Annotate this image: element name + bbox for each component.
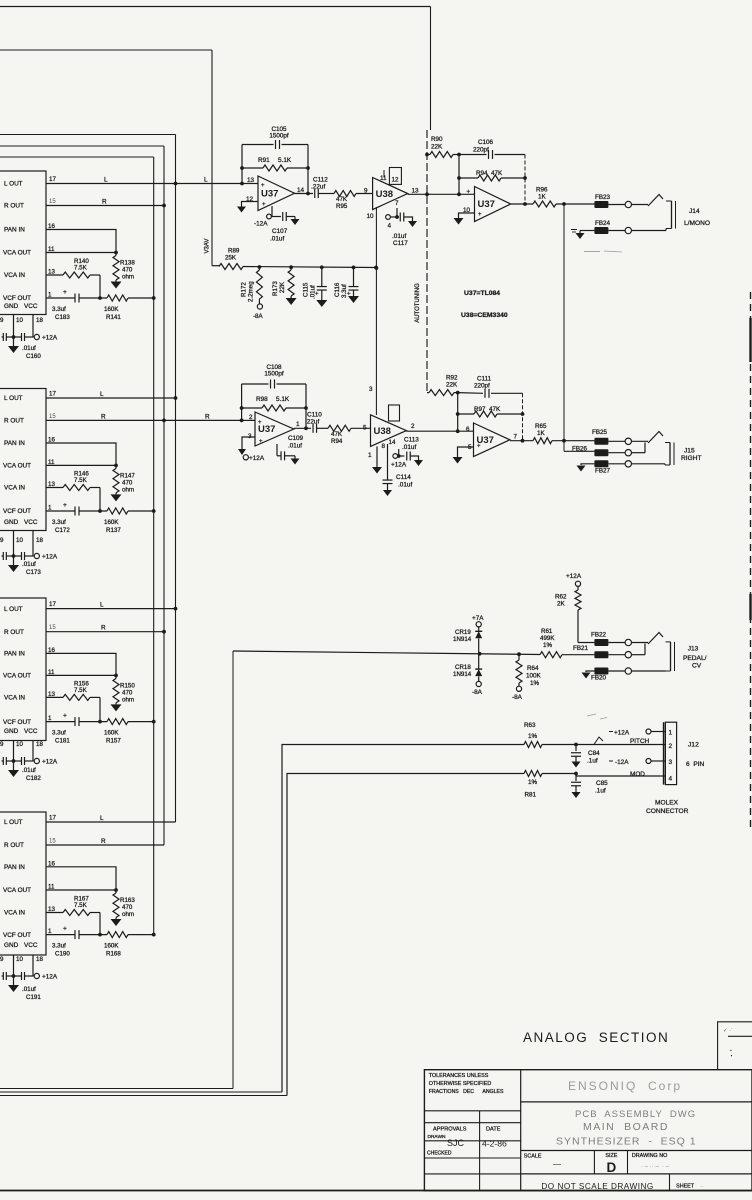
svg-text:+12A: +12A <box>249 455 265 462</box>
ferrite bead FB22 <box>578 632 608 647</box>
diode CR19 1N914 <box>453 627 482 654</box>
capacitor C115 .01uf <box>303 267 328 307</box>
svg-text:18: 18 <box>36 741 43 748</box>
svg-text:VCA OUT: VCA OUT <box>3 887 31 894</box>
svg-text:R141: R141 <box>106 314 121 321</box>
svg-text:C85: C85 <box>596 780 608 787</box>
svg-text:+12A: +12A <box>566 573 582 580</box>
op-amp U38 section (CEM3340 L) <box>364 175 419 220</box>
svg-text:R92: R92 <box>446 375 458 382</box>
svg-text:17: 17 <box>49 176 56 183</box>
svg-text:R OUT: R OUT <box>4 203 24 210</box>
power -8A at CR18 <box>472 681 483 696</box>
J15 tip switch lever <box>648 432 663 444</box>
svg-text:R138: R138 <box>120 260 135 267</box>
svg-text:160K: 160K <box>104 943 119 950</box>
svg-text:+12A: +12A <box>391 462 407 469</box>
ferrite bead FB20 <box>591 668 608 682</box>
label SIZE D <box>605 1153 617 1175</box>
jack contact circle J15 ring <box>608 443 645 456</box>
capacitor C110 .22uf <box>305 412 322 433</box>
svg-text:PITCH: PITCH <box>630 738 650 745</box>
svg-text:17: 17 <box>49 601 56 608</box>
resistor R90 22K <box>425 136 459 158</box>
block 3 pin name labels <box>3 606 38 735</box>
wire FB26 to lever <box>564 450 594 452</box>
power +12A at U37B <box>243 455 265 462</box>
svg-text:J13: J13 <box>688 646 699 653</box>
svg-text:ohm: ohm <box>122 911 134 918</box>
svg-text:FB21: FB21 <box>573 645 589 652</box>
svg-text:ohm: ohm <box>122 486 134 493</box>
svg-text:22K: 22K <box>446 382 458 389</box>
svg-text:3: 3 <box>369 386 373 393</box>
label ANALOG SECTION <box>523 1030 669 1045</box>
ferrite bead FB24 <box>594 220 610 234</box>
svg-text:R96: R96 <box>536 187 548 194</box>
resistor R156 7.5K <box>46 680 102 723</box>
svg-text:470: 470 <box>122 479 133 486</box>
net name along sync line <box>415 283 421 323</box>
svg-text:1%: 1% <box>530 680 540 687</box>
wire pedal sum <box>0 651 455 1089</box>
svg-text:-8A: -8A <box>253 313 264 320</box>
capacitor C191 .01uf bypass <box>2 972 42 1001</box>
svg-text:1%: 1% <box>528 733 538 740</box>
svg-text:2K: 2K <box>557 601 566 608</box>
ferrite bead FB25 <box>592 429 608 445</box>
svg-text:.01uf: .01uf <box>392 233 406 240</box>
svg-text:J15: J15 <box>684 448 695 455</box>
label CHECKED <box>427 1151 452 1157</box>
svg-text:7: 7 <box>395 200 399 207</box>
svg-text:VCA IN: VCA IN <box>4 485 25 492</box>
svg-text:8: 8 <box>382 443 386 450</box>
svg-text:FRACTIONS DEC ANGLES: FRACTIONS DEC ANGLES <box>429 1089 504 1095</box>
svg-text:R147: R147 <box>120 472 135 479</box>
svg-text:ohm: ohm <box>122 696 134 703</box>
capacitor C116 3.3uf <box>334 267 359 303</box>
resistor R61 499K 1% <box>540 628 594 658</box>
label J15 RIGHT <box>681 448 702 463</box>
svg-text:C182: C182 <box>26 775 41 782</box>
op-amp U38 section (CEM3340 R) <box>363 386 415 459</box>
svg-text:1%: 1% <box>543 642 552 649</box>
svg-text:C106: C106 <box>478 139 494 146</box>
capacitor C117 .01uf <box>392 213 417 248</box>
resistor R62 2K <box>555 586 581 642</box>
svg-text:470: 470 <box>122 267 133 274</box>
svg-text:4: 4 <box>388 223 392 230</box>
svg-text:L: L <box>104 177 108 184</box>
svg-text:R65: R65 <box>535 423 547 430</box>
svg-text:C112: C112 <box>313 177 328 184</box>
capacitor C106 220pf <box>459 139 525 159</box>
note U37=TL084 <box>464 290 500 297</box>
note U38=CEM3340 <box>461 312 508 319</box>
capacitor C105 1500pf <box>242 126 308 149</box>
svg-text:.01uf: .01uf <box>288 443 302 450</box>
CEM voice chip U34 block 4 box <box>0 812 46 955</box>
wire ch1 input <box>242 183 258 185</box>
svg-text:VCA IN: VCA IN <box>4 272 25 279</box>
svg-text:+: + <box>259 439 263 445</box>
svg-text:15: 15 <box>49 839 56 845</box>
label DO NOT SCALE DRAWING <box>541 1182 653 1191</box>
resistor R64 100K 1% <box>516 654 542 687</box>
capacitor C113 .01uf <box>391 437 423 469</box>
wire U37B output <box>294 427 311 429</box>
capacitor C107 .01uf <box>270 212 300 243</box>
wire feedback node x459 <box>457 153 461 195</box>
svg-text:.01uf: .01uf <box>270 236 284 243</box>
svg-text:SYNTHESIZER - ESQ 1: SYNTHESIZER - ESQ 1 <box>556 1136 697 1148</box>
svg-text:PAN IN: PAN IN <box>4 227 25 234</box>
svg-text:+12A: +12A <box>42 554 58 561</box>
svg-text:FB20: FB20 <box>591 675 607 682</box>
svg-text:R: R <box>205 413 210 420</box>
svg-text:C173: C173 <box>26 569 41 576</box>
svg-text:SCALE: SCALE <box>524 1154 542 1160</box>
wire block1 PAN IN loop <box>46 230 118 255</box>
svg-text:-12A: -12A <box>254 221 268 228</box>
wire block3 VCA OUT <box>46 674 116 676</box>
wire U37D pin10 ground <box>454 213 475 225</box>
svg-text:GND: GND <box>4 942 19 949</box>
svg-text:DATE: DATE <box>486 1127 501 1133</box>
svg-text:7.5K: 7.5K <box>74 477 88 484</box>
U38B pin12 box <box>389 405 400 421</box>
svg-text:C113: C113 <box>404 437 419 444</box>
wire U37C output <box>510 440 533 442</box>
svg-text:FB23: FB23 <box>595 194 611 201</box>
block 1 pin number labels <box>48 176 56 299</box>
resistor R63 1% <box>524 722 578 748</box>
svg-text:C191: C191 <box>26 994 41 1001</box>
svg-text:R150: R150 <box>120 682 135 689</box>
resistor R168 160K <box>80 932 156 958</box>
power -12A to J12 pin3 <box>609 759 665 767</box>
svg-text:.01uf: .01uf <box>22 986 36 993</box>
svg-text:R97 47K: R97 47K <box>474 406 501 413</box>
capacitor C112 .22uf <box>311 177 328 199</box>
svg-text:+: + <box>63 289 67 296</box>
svg-text:L: L <box>204 177 208 184</box>
wire block3 L OUT to L bus <box>46 602 177 611</box>
label MOLEX CONNECTOR <box>646 800 689 816</box>
svg-text:L: L <box>100 391 104 398</box>
capacitor C190 3.3uf <box>46 926 79 958</box>
svg-text:7.5K: 7.5K <box>74 265 88 272</box>
svg-text:3.3uf: 3.3uf <box>52 943 66 950</box>
svg-text:—: — <box>553 1160 561 1169</box>
svg-text:U37: U37 <box>478 199 495 210</box>
svg-text:VCA IN: VCA IN <box>4 695 25 702</box>
block 1 pin name labels <box>3 181 38 310</box>
svg-text:C160: C160 <box>26 353 41 360</box>
wire R89 net <box>212 265 219 267</box>
wire second top bus y50 <box>0 49 212 51</box>
svg-text:R: R <box>102 199 107 206</box>
svg-text:L OUT: L OUT <box>4 181 23 188</box>
svg-text:C111: C111 <box>477 376 492 383</box>
svg-text:C107: C107 <box>272 228 288 235</box>
svg-text:C84: C84 <box>588 750 600 757</box>
wire mod to pin4 <box>576 774 665 777</box>
svg-text:C117: C117 <box>393 240 408 247</box>
svg-text:DRAWN: DRAWN <box>428 1134 446 1140</box>
svg-text:CR18: CR18 <box>455 664 471 671</box>
svg-text:L OUT: L OUT <box>4 819 23 826</box>
op-amp U37 section D <box>463 187 511 222</box>
resistor R81 1% <box>524 771 578 799</box>
svg-text:FB27: FB27 <box>595 468 611 475</box>
svg-text:VCF OUT: VCF OUT <box>3 508 31 515</box>
svg-text:+: + <box>262 202 266 208</box>
jack J14 frame <box>666 201 676 229</box>
wire U37D output <box>511 203 533 205</box>
svg-text:L OUT: L OUT <box>4 606 23 613</box>
power +12A at R62 <box>566 573 582 586</box>
svg-text:CONNECTOR: CONNECTOR <box>646 808 689 815</box>
CEM voice chip U33 block 3 box <box>0 598 46 741</box>
svg-text:4-2-86: 4-2-86 <box>482 1139 507 1149</box>
svg-text:9: 9 <box>0 741 4 748</box>
svg-text:13: 13 <box>412 188 420 195</box>
svg-text:R157: R157 <box>106 738 121 745</box>
svg-text:R: R <box>101 413 106 420</box>
svg-text:VCA OUT: VCA OUT <box>3 673 31 680</box>
svg-text:R: R <box>101 625 106 632</box>
wire ch2 feedback right vertical <box>304 384 308 430</box>
svg-text:R89: R89 <box>228 248 240 255</box>
svg-text:TOLERANCES UNLESS: TOLERANCES UNLESS <box>429 1073 489 1079</box>
svg-text:10: 10 <box>367 213 375 220</box>
scan smudge near J14 <box>584 251 622 252</box>
svg-text:R90: R90 <box>431 136 443 143</box>
capacitor C84 .1uf <box>571 745 600 768</box>
svg-text:V3AV: V3AV <box>205 239 211 254</box>
svg-text:C109: C109 <box>288 435 304 442</box>
svg-text:1: 1 <box>669 730 673 737</box>
ferrite bead FB23 <box>594 194 610 208</box>
svg-text:FB26: FB26 <box>572 446 588 453</box>
svg-text:R: R <box>101 838 106 845</box>
svg-text:R137: R137 <box>106 527 121 534</box>
wire U37A output <box>295 193 314 195</box>
ferrite bead FB27 <box>594 460 610 474</box>
power -12A at U37A <box>254 206 281 228</box>
wire U38B pin1 ground <box>372 446 382 473</box>
capacitor C108 1500pf <box>242 364 306 389</box>
wire block1 L OUT to mixer <box>46 177 242 186</box>
svg-text:GND: GND <box>4 519 19 526</box>
svg-text:5.1K: 5.1K <box>278 157 292 164</box>
wire R return bus y146 <box>0 145 164 147</box>
svg-text:VCF OUT: VCF OUT <box>3 719 31 726</box>
svg-text:17: 17 <box>49 815 56 822</box>
svg-text:18: 18 <box>36 537 43 544</box>
wire U37B pin3 branch <box>242 437 255 449</box>
CEM voice chip U32 block 2 box <box>0 389 46 531</box>
svg-text:1%: 1% <box>528 779 538 786</box>
wire block4 PAN IN loop <box>46 867 118 892</box>
svg-text:MAIN BOARD: MAIN BOARD <box>583 1121 669 1133</box>
wire vertical x212 to R89 <box>211 50 213 266</box>
svg-text:R98: R98 <box>256 396 268 403</box>
svg-text:+: + <box>467 190 471 196</box>
svg-text:5: 5 <box>363 425 367 432</box>
wire R sum bus x164 <box>163 146 165 845</box>
svg-text:C110: C110 <box>307 412 322 419</box>
svg-text:APPROVALS: APPROVALS <box>433 1127 467 1133</box>
svg-text:+: + <box>63 502 67 509</box>
svg-text:VCF OUT: VCF OUT <box>3 295 31 302</box>
svg-text:+12A: +12A <box>614 730 630 737</box>
wire U38B output to U37C <box>406 429 473 433</box>
wire feedback right x522.5 <box>521 393 525 442</box>
label MOD <box>630 771 645 778</box>
wire pitch net <box>0 745 524 1093</box>
wire mod net <box>0 774 524 1096</box>
svg-text:MOLEX: MOLEX <box>655 800 679 807</box>
svg-text:18: 18 <box>36 317 43 324</box>
svg-text:9: 9 <box>0 537 4 544</box>
power +12A block 3 <box>34 758 58 765</box>
wire U38B pin14 power <box>393 449 405 458</box>
svg-text:R OUT: R OUT <box>4 629 24 636</box>
wire block2 R OUT to mixer <box>46 413 242 422</box>
svg-text:9: 9 <box>364 188 368 195</box>
svg-text:14: 14 <box>389 439 397 446</box>
resistor R141 160K <box>80 295 156 321</box>
svg-text:VCC: VCC <box>24 728 38 735</box>
svg-text:47K: 47K <box>331 431 343 438</box>
svg-text:.1uf: .1uf <box>595 788 606 795</box>
svg-text:C183: C183 <box>55 314 70 321</box>
svg-text:2: 2 <box>669 743 673 750</box>
wire ch1 feedback node vertical <box>240 145 244 186</box>
svg-text:CR19: CR19 <box>455 629 471 636</box>
svg-text:.01uf: .01uf <box>398 482 412 489</box>
svg-text:R OUT: R OUT <box>4 418 24 425</box>
title block grid <box>424 1070 752 1191</box>
svg-text:499K: 499K <box>540 635 555 642</box>
block 2 pin name labels <box>3 395 38 526</box>
block 1 bottom pins 10 18 <box>0 315 43 338</box>
resistor R157 160K <box>80 719 156 745</box>
svg-text:18: 18 <box>36 956 43 963</box>
svg-text:-8A: -8A <box>472 689 483 696</box>
title block right grid <box>521 1102 752 1191</box>
svg-text:R81: R81 <box>525 792 537 799</box>
label DRAWING NO <box>632 1153 670 1170</box>
svg-text:VCF OUT: VCF OUT <box>3 932 31 939</box>
wire block4 VCA OUT <box>46 889 116 891</box>
block 4 pin number labels <box>48 815 56 936</box>
U38 pin12 box <box>384 168 401 185</box>
power +12A block 2 <box>34 553 58 560</box>
capacitor C85 .1uf <box>571 776 608 798</box>
resistor R92 22K <box>427 375 458 396</box>
svg-text:R172: R172 <box>241 282 248 297</box>
svg-text:RIGHT: RIGHT <box>681 455 702 462</box>
svg-text:220pf: 220pf <box>474 383 490 390</box>
company name scrawl <box>568 1079 682 1093</box>
wire pedal sum right <box>455 652 540 656</box>
wire L to FB26 vertical <box>563 204 565 451</box>
wire feedback right x525 <box>523 155 527 206</box>
svg-text:SHEET: SHEET <box>676 1184 695 1190</box>
capacitor C160 .01uf bypass <box>2 333 42 360</box>
capacitor C111 220pf <box>458 376 523 398</box>
svg-text:CV: CV <box>692 663 702 670</box>
J13 tip switch lever <box>648 633 663 645</box>
block 3 pin number labels <box>48 601 56 722</box>
title line 1 <box>575 1109 696 1120</box>
op-amp U37 section B <box>248 412 300 446</box>
svg-text:R94: R94 <box>331 438 343 445</box>
svg-text:10: 10 <box>16 956 23 963</box>
svg-text:22K: 22K <box>279 281 286 293</box>
ferrite bead FB26 <box>572 446 608 457</box>
J14 tip switch lever <box>648 195 663 207</box>
svg-text:PEDAL/: PEDAL/ <box>683 655 707 662</box>
svg-text:1N914: 1N914 <box>453 636 472 643</box>
svg-text:VCA OUT: VCA OUT <box>3 463 31 470</box>
wire VCF sum bus x153.7 <box>153 157 155 935</box>
wire block3 R OUT to R bus <box>46 625 166 634</box>
wire block4 L OUT to L bus <box>46 815 176 822</box>
svg-text:R173: R173 <box>272 281 279 296</box>
svg-text:VCC: VCC <box>24 303 38 310</box>
svg-text:3.3uf: 3.3uf <box>52 306 66 313</box>
block 4 pin name labels <box>3 819 38 949</box>
power +12A block 1 <box>34 334 58 341</box>
svg-text:+12A: +12A <box>42 759 58 766</box>
svg-text:ohm: ohm <box>122 274 134 281</box>
jack J13 frame <box>666 642 675 671</box>
svg-text:J14: J14 <box>689 208 700 215</box>
resistor R147 470 ohm <box>111 465 136 501</box>
block 2 pin number labels <box>48 391 56 512</box>
connector J12 box <box>664 722 677 784</box>
resistor R94b 47K <box>317 425 371 445</box>
svg-text:4: 4 <box>669 776 673 783</box>
svg-text:+: + <box>478 212 482 218</box>
svg-text:9: 9 <box>0 956 4 963</box>
svg-text:+12A: +12A <box>42 974 58 981</box>
svg-text:-8A: -8A <box>512 694 523 701</box>
svg-text:R64: R64 <box>527 665 539 672</box>
svg-text:5.1K: 5.1K <box>276 396 290 403</box>
svg-text:R61: R61 <box>541 628 553 635</box>
resistor R89 25K <box>219 248 378 270</box>
resistor R94 47K <box>459 170 525 181</box>
tolerance notes <box>429 1073 504 1095</box>
svg-text:··: ·· <box>700 1184 704 1190</box>
svg-text:100K: 100K <box>526 673 542 680</box>
svg-text:15: 15 <box>49 199 56 205</box>
resistor R91 5.1K <box>242 157 308 171</box>
wire block2 VCA OUT <box>46 464 116 466</box>
capacitor C109 .01uf <box>277 435 304 465</box>
capacitor C182 .01uf bypass <box>2 757 42 782</box>
svg-text:+: + <box>477 444 481 450</box>
wire block3 PAN IN loop <box>46 653 118 677</box>
block 4 bottom pins 10 18 <box>0 955 43 976</box>
label J12 6 PIN <box>686 742 705 769</box>
